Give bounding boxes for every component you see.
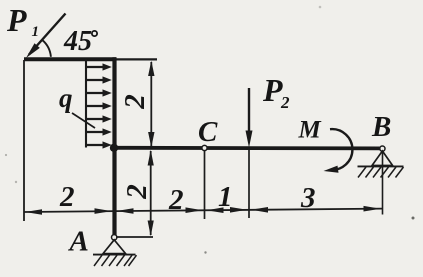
load arrow 3: [86, 92, 104, 94]
svg-text:1: 1: [32, 24, 40, 40]
support B triangle: [372, 151, 393, 166]
wire: horizontal beam from column to support B: [113, 146, 383, 150]
svg-text:2: 2: [59, 181, 75, 213]
extension line below B: [382, 151, 384, 215]
vertical dimension lower (2) line: [150, 151, 152, 235]
speckle marks from scan: [15, 181, 17, 183]
support B pin circle: [380, 146, 385, 151]
vertical dim lower arrow up: [148, 150, 154, 166]
support B ground line: [358, 165, 404, 167]
force P2 arrowhead: [246, 131, 253, 148]
svg-text:1: 1: [218, 181, 233, 213]
svg-text:C: C: [198, 116, 218, 148]
load arrow 6: [86, 131, 104, 133]
svg-text:P: P: [6, 2, 27, 38]
svg-text:A: A: [68, 226, 89, 258]
dim arrow span4 left: [251, 207, 268, 213]
vertical dim upper arrow down: [148, 132, 154, 147]
dim arrow span2 left: [117, 208, 134, 214]
dim arrow span4 right: [364, 206, 381, 212]
vertical dimension upper (2) line: [150, 62, 152, 146]
wire: top line extension to dimension line: [116, 58, 157, 60]
wire: vertical column member: [112, 57, 116, 236]
extension line below C: [204, 151, 206, 219]
angle arc 45: [42, 40, 51, 57]
q leader line: [72, 113, 95, 128]
svg-text:2: 2: [168, 184, 184, 216]
moment M arrowhead: [324, 166, 339, 173]
moment M arc: [330, 129, 352, 170]
support A hatching: [94, 255, 102, 266]
extension line below P2: [248, 150, 250, 218]
extension line left (from corner down): [23, 60, 25, 221]
dimension line bottom: [24, 209, 383, 212]
node: junction of column and beam: [110, 144, 118, 152]
vertical dim lower arrow down: [148, 221, 154, 237]
dim arrow span2 right: [186, 207, 203, 213]
vertical dim upper arrow up: [148, 61, 154, 76]
force P1 line at 45 deg: [29, 14, 66, 55]
support A triangle: [103, 240, 126, 254]
load arrow 1: [86, 66, 104, 68]
load arrow 2: [86, 79, 104, 81]
svg-text:2: 2: [119, 94, 151, 110]
svg-text:P: P: [262, 72, 283, 108]
svg-text:3: 3: [300, 182, 316, 214]
dim arrow span1 right: [95, 208, 112, 214]
force P1 arrowhead: [26, 43, 40, 58]
force P2 line: [248, 88, 250, 133]
distributed load q left boundary line: [85, 59, 87, 148]
wire: top horizontal member from corner to column: [24, 57, 116, 61]
support A ground line: [93, 254, 136, 256]
svg-text:B: B: [371, 111, 391, 143]
support A pin circle: [112, 235, 117, 240]
svg-text:q: q: [59, 83, 73, 113]
support B hatching: [358, 167, 366, 178]
load arrow 4: [86, 105, 104, 107]
dim arrow span3 left: [207, 207, 224, 213]
svg-text:M: M: [298, 117, 322, 144]
dim arrow span1 left: [25, 209, 42, 215]
dim arrow span3 right: [230, 207, 247, 213]
svg-text:2: 2: [121, 184, 153, 200]
svg-text:2: 2: [280, 93, 290, 112]
load arrow 5: [86, 118, 104, 120]
node C circle: [202, 145, 207, 150]
svg-text:45: 45: [63, 26, 92, 57]
extension line at A level: [116, 236, 153, 238]
load arrow 7: [86, 144, 104, 146]
